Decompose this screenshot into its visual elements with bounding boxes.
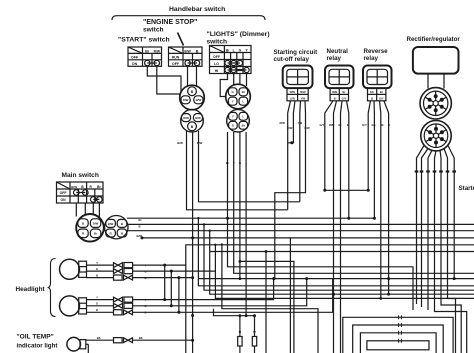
harness spiral S2 — [353, 325, 444, 353]
svg-text:B/W: B/W — [196, 98, 202, 102]
lamp L3 oil temp indicator bulb — [67, 337, 88, 353]
connector pair on L2 G lead — [114, 303, 123, 308]
wire: headlight G bus right, up to main bus — [133, 279, 307, 306]
svg-text:Rectifier/regulator: Rectifier/regulator — [407, 36, 461, 43]
wire: L2 lead Y — [87, 299, 115, 301]
wire: nested harness line N2 — [204, 224, 474, 290]
switch SW1 START contact table — [128, 47, 162, 66]
wire: corner down from bus R — [289, 238, 291, 353]
svg-text:Y: Y — [232, 100, 234, 104]
wire: RL2 pin3 Br down — [341, 101, 343, 353]
svg-text:B/W: B/W — [93, 222, 99, 226]
svg-text:B: B — [121, 222, 124, 226]
svg-text:G/Y: G/Y — [342, 97, 347, 101]
connector pair on L1 Y lead — [114, 263, 123, 268]
wire: ENGINE STOP B contact to connector C1 — [196, 66, 198, 87]
svg-text:B: B — [191, 125, 194, 129]
wire: main bus y278.6 to right edge — [198, 278, 474, 280]
svg-text:B: B — [382, 123, 384, 127]
wire: C2 B/W down into harness — [187, 131, 288, 210]
wire: RL3 pin2 G/L down to bus — [373, 101, 375, 218]
wire: C8 pin wires fan out down — [417, 146, 425, 305]
wire: C4 Y down (middle bundle) — [234, 132, 474, 273]
wire: bus R — [142, 237, 474, 239]
svg-text:OFF: OFF — [213, 55, 221, 59]
wire: fuse feeder line — [214, 309, 247, 316]
svg-text:G: G — [232, 90, 235, 94]
svg-text:R: R — [110, 231, 113, 235]
svg-text:L: L — [242, 100, 244, 104]
svg-text:L/W: L/W — [305, 126, 310, 130]
svg-text:R/W: R/W — [183, 98, 189, 102]
svg-text:Y/B: Y/B — [301, 97, 306, 101]
wire: nested harness line N3 — [210, 231, 474, 295]
node (368.2,190.3) — [367, 189, 370, 192]
svg-text:Starting circuit: Starting circuit — [274, 49, 318, 56]
node (306.7,278.6) — [305, 277, 308, 280]
wire: bus B/W from C6 right — [127, 230, 474, 232]
svg-text:R/W: R/W — [154, 49, 161, 53]
connector pair on L3 lead — [114, 338, 123, 343]
svg-text:Y: Y — [96, 295, 98, 299]
svg-text:B/L: B/L — [97, 336, 102, 340]
svg-text:HI: HI — [215, 69, 219, 73]
svg-text:Br: Br — [94, 232, 98, 236]
arrow from ENGINE STOP label to switch SW2 — [178, 33, 184, 46]
svg-text:G: G — [96, 302, 98, 306]
node (374.4,218.2) — [373, 217, 376, 220]
node (388.6,294.2) — [387, 293, 390, 296]
connector C2 (handlebar switch lower) — [181, 109, 204, 132]
node (291.8,142.8) — [290, 141, 293, 144]
switch SW2 ENGINE STOP contact table — [169, 47, 203, 66]
svg-text:"OIL TEMP": "OIL TEMP" — [17, 334, 54, 341]
svg-text:G: G — [239, 49, 242, 53]
connector pair on L2 Y lead — [114, 297, 123, 302]
svg-text:B: B — [82, 222, 85, 226]
connector block of relay RL2 — [330, 88, 348, 101]
node (333.5,294.2) — [332, 293, 335, 296]
wire: rectifier to connector C7 — [427, 74, 429, 89]
fuse F1 — [238, 337, 242, 347]
switch SW3 LIGHTS dimmer contact table — [210, 46, 252, 74]
svg-text:W/B: W/B — [329, 123, 334, 127]
svg-text:B: B — [388, 123, 390, 127]
svg-text:Reverse: Reverse — [364, 48, 389, 55]
svg-text:L: L — [245, 161, 247, 165]
wire: headlight Y bus right, up to main bus — [133, 279, 274, 300]
svg-text:switch: switch — [207, 39, 228, 46]
wire: B join vertical — [178, 278, 180, 313]
wire: L1 lead Y — [87, 264, 115, 266]
connector C7 (rectifier upper, 6-pin round) — [420, 88, 451, 119]
svg-text:Neutral: Neutral — [327, 48, 349, 55]
wire: C4 G down to fuse F1 — [239, 132, 241, 279]
node (171.3,271.1) — [170, 270, 173, 273]
svg-text:Handlebar switch: Handlebar switch — [169, 6, 225, 13]
svg-text:R/W: R/W — [300, 90, 306, 94]
svg-text:Br: Br — [242, 124, 246, 128]
svg-text:ON: ON — [60, 198, 66, 202]
wire: START R/W contact to connector C1 — [157, 66, 181, 94]
wire: RL2 pin4 B down to bus — [347, 101, 349, 218]
svg-text:cut-off relay: cut-off relay — [274, 56, 310, 63]
wire: RL1 pin4 L/W down, jog left, to bus — [275, 101, 306, 279]
lamp L1 headlight bulb upper — [60, 259, 87, 279]
svg-text:B/W: B/W — [184, 49, 191, 53]
wire: main switch Br to connector C5 — [98, 203, 100, 218]
relay RL1 starting circuit cut-off — [283, 66, 313, 89]
wire: LIGHTS Y to connector C3 — [246, 74, 248, 87]
wire: L1 Y to junction — [133, 264, 186, 266]
svg-text:Br: Br — [242, 90, 246, 94]
node (164.7,299.6) — [163, 298, 166, 301]
svg-text:relay: relay — [327, 55, 342, 62]
node (348.8,218.2) — [347, 217, 350, 220]
wire: bus Br from C6 right — [127, 217, 374, 219]
svg-text:G: G — [232, 124, 235, 128]
wire: RL3 pin1 G/Y down to node — [368, 101, 370, 191]
svg-text:Br: Br — [380, 90, 383, 94]
handlebar switch bracket — [112, 16, 265, 20]
wire: headlight B bus right, up to main bus — [133, 279, 333, 313]
wire: L1 G to junction — [133, 270, 216, 272]
svg-text:"LIGHTS" (Dimmer): "LIGHTS" (Dimmer) — [207, 31, 270, 38]
svg-text:B: B — [347, 123, 349, 127]
svg-text:Starter: Starter — [459, 185, 474, 192]
connector block of relay RL1 — [287, 88, 308, 101]
wire: START Br contact to connector C1 — [147, 66, 181, 92]
wire: C4 L down, jog to fuse F2 — [246, 132, 254, 353]
wire: L3 lead to harness — [133, 339, 193, 341]
svg-text:indicator light: indicator light — [17, 343, 58, 350]
node (273.9,278.6) — [272, 277, 275, 280]
connector C8 (rectifier lower, 6-pin round) — [421, 121, 451, 151]
node (221.9,244.6) — [221, 243, 223, 245]
node (178.9,277.6) — [177, 276, 180, 279]
node (178.9,312.3) — [177, 311, 180, 314]
svg-text:B/L: B/L — [139, 336, 144, 340]
svg-text:Y/B: Y/B — [298, 121, 303, 125]
svg-text:G/Y: G/Y — [320, 123, 325, 127]
rectifier/regulator box — [413, 47, 459, 74]
svg-text:Br: Br — [343, 90, 346, 94]
svg-text:R/W: R/W — [183, 116, 189, 120]
harness spiral S1 — [343, 317, 453, 353]
node (324.8,190.3) — [323, 189, 326, 192]
relay RL2 neutral — [325, 66, 354, 89]
connector C3 (lights switch upper) — [226, 84, 251, 109]
node (171.3,305.8) — [170, 304, 173, 307]
splice ticks on spiral — [399, 315, 402, 343]
relay RL3 reverse — [363, 66, 392, 89]
svg-text:G: G — [96, 267, 98, 271]
connector C6 (main switch, right) — [105, 216, 128, 239]
svg-text:R/W: R/W — [280, 121, 286, 125]
svg-text:Y: Y — [232, 115, 234, 119]
svg-text:Y: Y — [96, 261, 98, 265]
wire: nested harness line N5 — [222, 245, 318, 353]
wire: LIGHTS Br to connector C3 — [220, 74, 227, 97]
svg-text:Br: Br — [97, 185, 101, 189]
svg-text:Headlight: Headlight — [16, 286, 46, 293]
wire: C4 Br down (middle bundle) — [228, 132, 414, 310]
svg-text:R/W: R/W — [197, 141, 203, 145]
svg-text:B: B — [96, 308, 98, 312]
svg-text:R: R — [90, 185, 93, 189]
svg-text:Br: Br — [226, 161, 230, 165]
node (227.5,218.2) — [226, 217, 229, 220]
wire: branch y261.4 with drop — [240, 261, 294, 353]
node (388.6,278.6) — [387, 277, 390, 280]
svg-text:R/W: R/W — [290, 90, 296, 94]
svg-text:switch: switch — [143, 27, 164, 34]
wire: RL1 pin3 Y/B down — [299, 101, 302, 202]
node (254.5,315.7) — [253, 314, 256, 317]
node (204,224.4) — [203, 223, 205, 225]
svg-text:B: B — [121, 231, 124, 235]
svg-text:LO: LO — [214, 62, 219, 66]
svg-text:RUN: RUN — [172, 56, 180, 60]
svg-text:OFF: OFF — [60, 191, 67, 195]
wire: Y join vertical — [164, 265, 166, 300]
svg-text:B: B — [371, 97, 373, 101]
svg-text:OFF: OFF — [131, 56, 139, 60]
wire: bus y251.5 — [210, 251, 474, 253]
node (454.2,278.6) — [453, 277, 456, 280]
wire: L2 lead G — [87, 305, 115, 307]
node (209.7,230.7) — [209, 230, 211, 232]
svg-text:"ENGINE STOP": "ENGINE STOP" — [143, 19, 197, 26]
wire: nested harness line N4 — [215, 245, 474, 299]
wire: main switch B to connector C5 — [84, 203, 86, 214]
connector C4 (lights switch lower) — [227, 109, 250, 132]
node (380.8,298.4) — [379, 297, 382, 300]
svg-text:"START" switch: "START" switch — [118, 37, 170, 44]
svg-text:OFF: OFF — [172, 62, 180, 66]
svg-text:G/L: G/L — [372, 123, 377, 127]
svg-text:W/B: W/B — [332, 90, 337, 94]
wire: fuse F1 drop — [239, 316, 241, 353]
wire: L1 lead B — [87, 277, 115, 279]
svg-text:G/Y: G/Y — [362, 123, 367, 127]
switch SW4 main switch contact table — [57, 182, 104, 203]
connector pair on L2 B lead — [114, 310, 123, 315]
wire: L3 lead B/L — [86, 339, 114, 341]
wire: C2 B down into harness — [192, 132, 194, 353]
svg-text:Y: Y — [233, 161, 235, 165]
svg-text:L: L — [233, 49, 235, 53]
svg-text:B/W: B/W — [108, 222, 114, 226]
wire: L2 lead B — [87, 311, 115, 313]
node (239.9,261.4) — [239, 260, 242, 263]
headlight brace — [48, 259, 56, 317]
node (266,251.5) — [265, 250, 268, 253]
harness spiral S3 — [360, 333, 436, 353]
node (198.4,218.2) — [197, 217, 199, 219]
svg-text:B: B — [334, 97, 336, 101]
svg-text:relay: relay — [364, 55, 379, 62]
wire: G join vertical — [170, 271, 172, 306]
svg-text:B/W: B/W — [177, 141, 183, 145]
wire: bus at y244.6 — [186, 245, 474, 353]
wire: RL3 pin3 B down — [380, 101, 381, 299]
svg-text:L: L — [242, 115, 244, 119]
node (215.4,244.8) — [214, 244, 216, 246]
svg-text:G/Y: G/Y — [379, 97, 384, 101]
wire: L1 lead G — [87, 270, 115, 272]
splice ticks on rectifier wires — [415, 170, 456, 172]
connector pair on L1 G lead — [114, 269, 123, 274]
wire: RL1 pin1 R/W down — [288, 101, 291, 210]
wire: bus B from C6 right — [128, 223, 474, 225]
svg-text:ON: ON — [132, 62, 138, 66]
connector pair on L1 B lead — [114, 275, 123, 280]
svg-text:Br: Br — [339, 123, 343, 127]
svg-text:R/W: R/W — [287, 126, 293, 130]
node (239.9,315.7) — [239, 314, 242, 317]
connector block of relay RL3 — [368, 88, 386, 101]
wire: main switch R to connector C5 — [92, 203, 94, 215]
lamp L2 headlight bulb lower — [60, 296, 87, 316]
wire: L1 B to junction — [133, 277, 193, 279]
node (254.5,331.8) — [253, 331, 255, 333]
svg-text:G: G — [239, 161, 242, 165]
wire: drop from bus y251.5 — [265, 252, 267, 353]
node (239.9,278.6) — [239, 277, 242, 280]
harness spiral S4 (inner loop) — [367, 341, 429, 350]
wire: RL1 pin2 R/W down — [288, 101, 295, 143]
node (192.6,277.6) — [191, 276, 194, 279]
svg-text:R: R — [82, 232, 85, 236]
svg-text:Main switch: Main switch — [62, 172, 99, 179]
svg-text:B/W: B/W — [71, 185, 77, 189]
node (192.6,237.9) — [191, 236, 194, 239]
wire: RL2 pin2 W/B down — [334, 101, 337, 353]
node (192.6,338.3) — [191, 339, 194, 342]
wire: RL3 pin4 down — [384, 101, 389, 294]
svg-text:L/W: L/W — [290, 97, 295, 101]
svg-text:B: B — [96, 273, 98, 277]
connector C1 (handlebar switch upper) — [180, 85, 205, 110]
wire: nested harness line N1 — [198, 218, 474, 286]
connector C5 (main switch, left) — [76, 214, 104, 242]
node (142,237.9) — [141, 236, 144, 239]
svg-text:B: B — [81, 185, 84, 189]
fuse F2 — [252, 337, 256, 347]
wire: LIGHTS L to connector C3 — [233, 74, 235, 85]
node (246.1,315.7) — [245, 314, 248, 317]
wire: RL2 pin1 G/Y down then right to reverse relay — [325, 101, 368, 191]
wire: C2 R/W down then right (bus y=201) — [199, 131, 300, 202]
wire: ENGINE STOP B/W contact to connector C1 — [187, 66, 189, 86]
svg-text:Br: Br — [145, 49, 150, 53]
wire: main switch B/W to connector C5 — [75, 203, 77, 217]
node (239.9,331.8) — [239, 331, 241, 333]
svg-text:B: B — [139, 225, 141, 229]
svg-text:G/L: G/L — [370, 90, 375, 94]
node (192.6,315.5) — [191, 314, 194, 317]
wire: LIGHTS G to connector C3 — [239, 74, 241, 85]
svg-text:B: B — [196, 49, 199, 53]
node (164.7,265.1) — [163, 264, 166, 267]
svg-text:B: B — [191, 90, 194, 94]
svg-text:B/W: B/W — [195, 116, 201, 120]
